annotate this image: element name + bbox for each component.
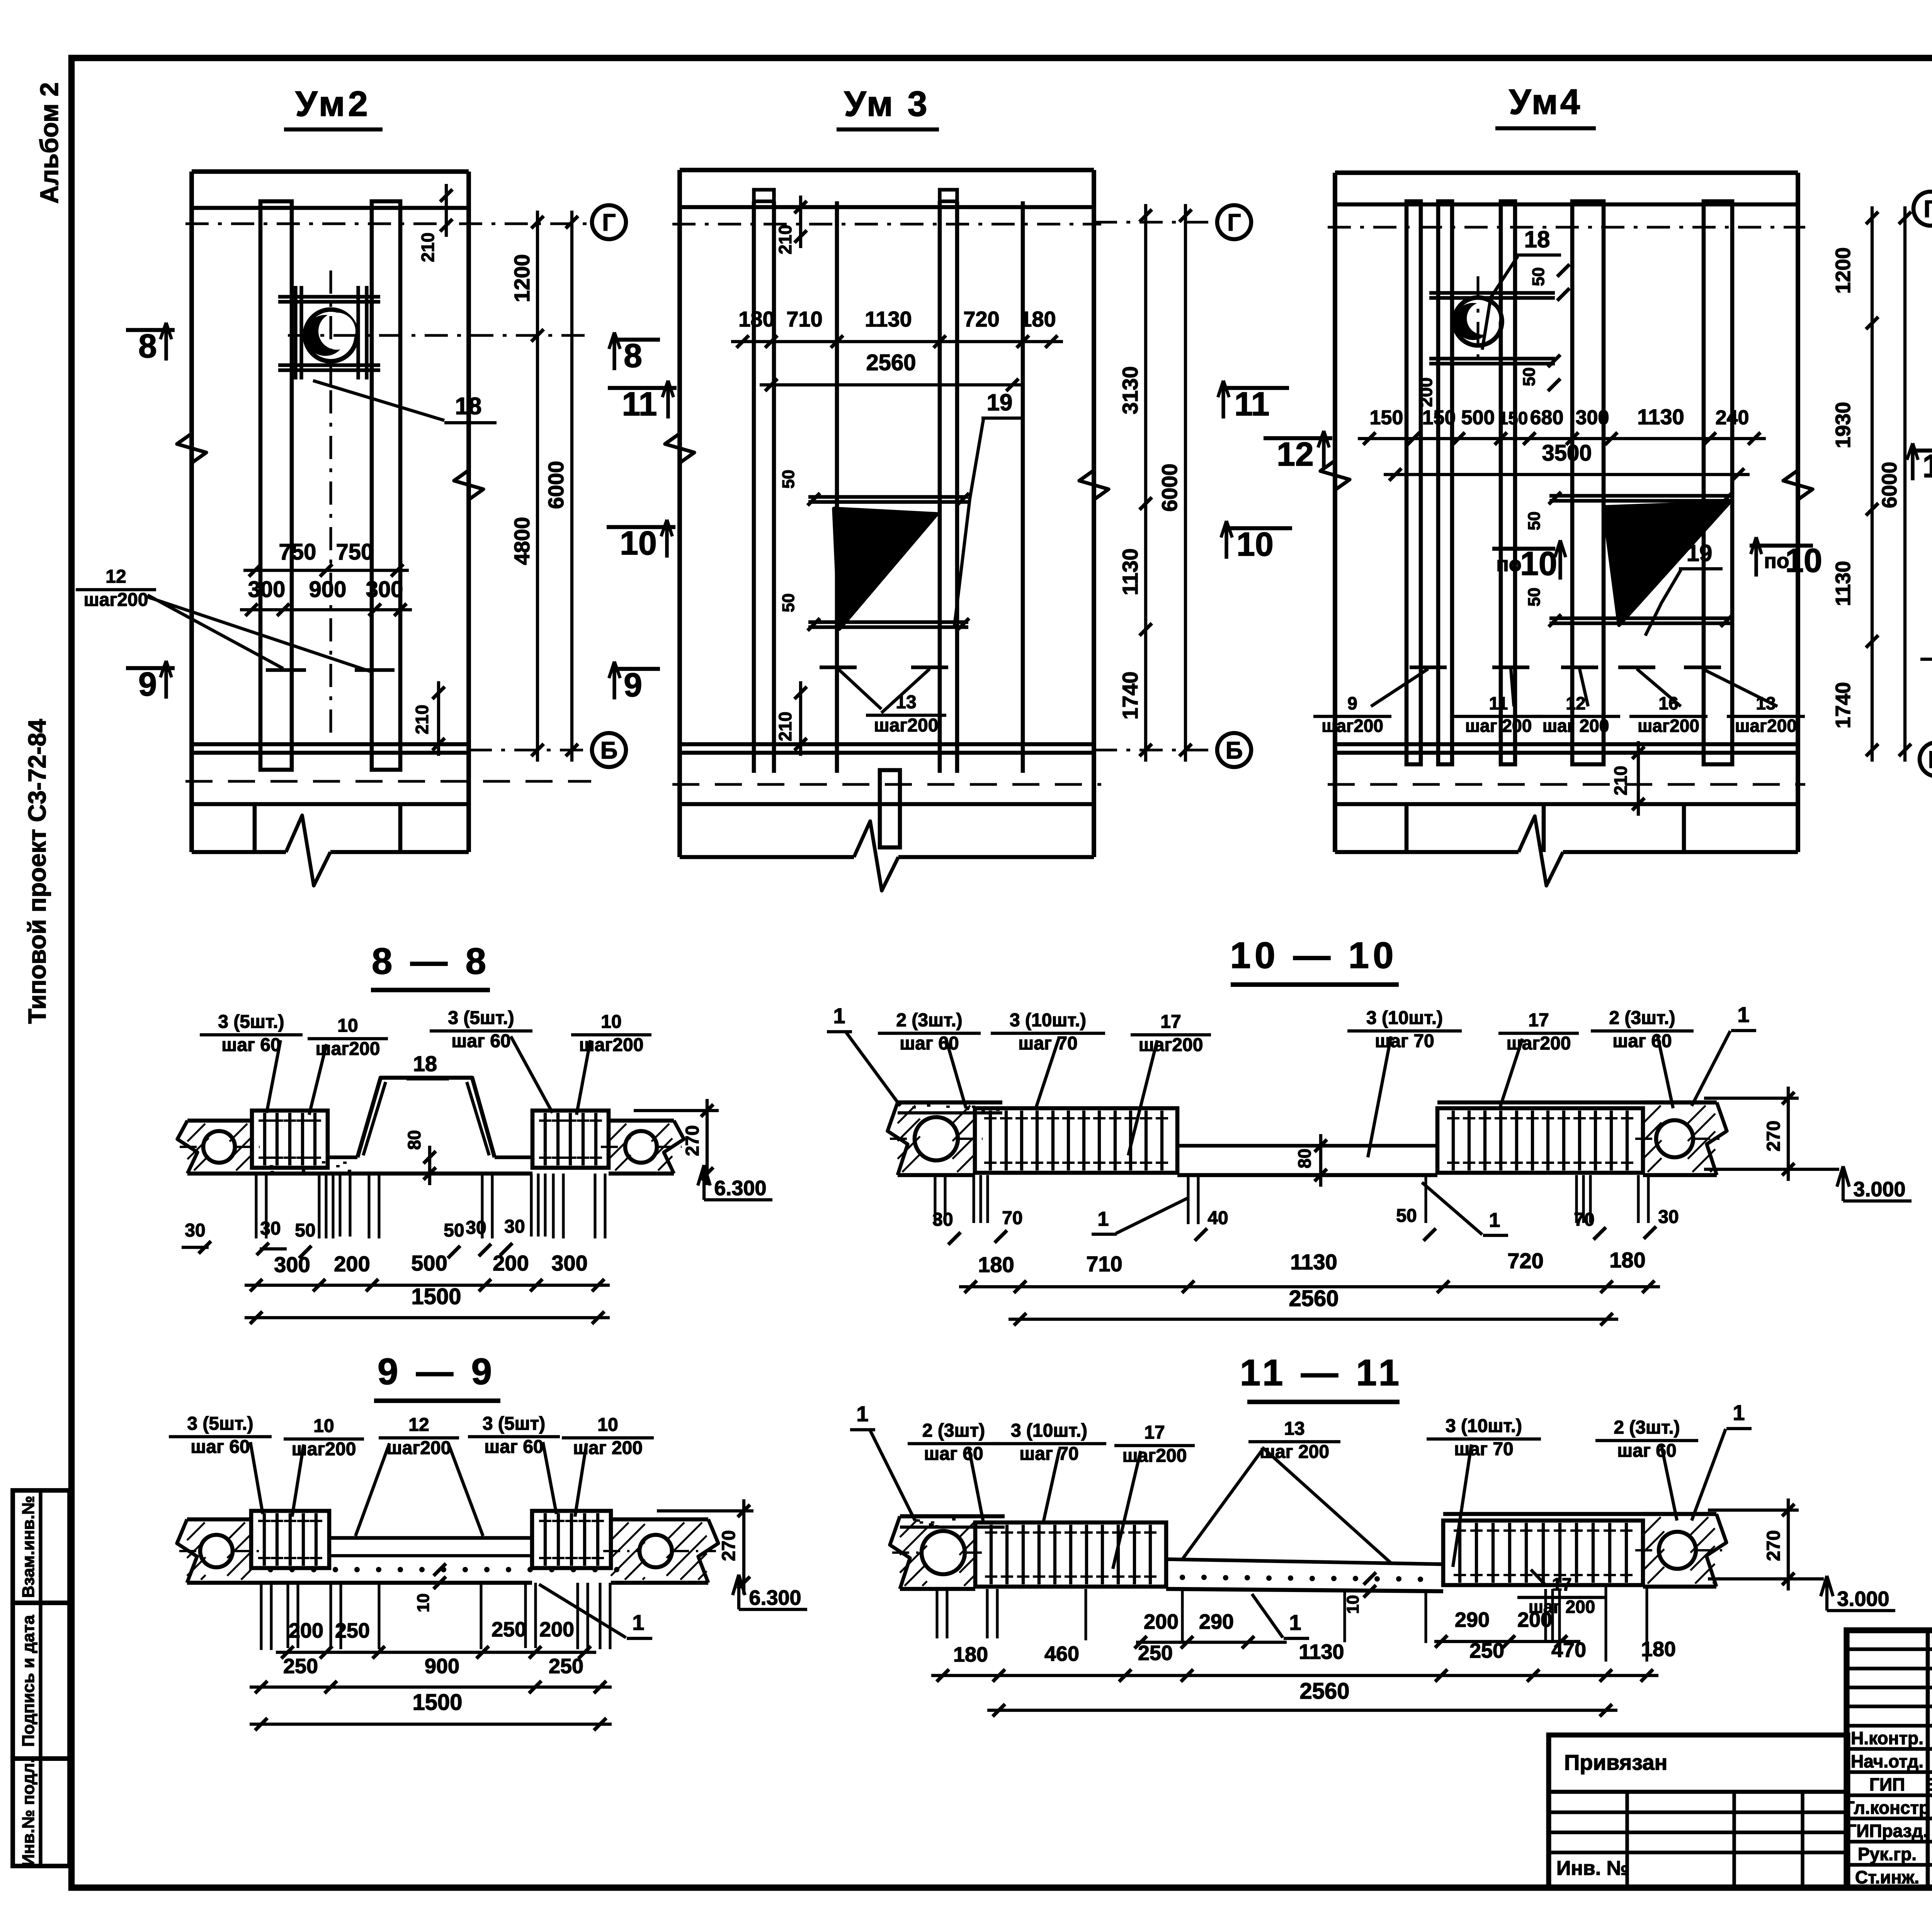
section 9-9 right cage xyxy=(532,1511,611,1568)
svg-text:2 (3шт.): 2 (3шт.) xyxy=(896,1010,962,1031)
svg-text:4800: 4800 xyxy=(510,517,534,565)
svg-text:6000: 6000 xyxy=(544,461,568,509)
svg-text:3 (10шт.): 3 (10шт.) xyxy=(1446,1416,1522,1436)
svg-text:900: 900 xyxy=(309,577,347,602)
svg-text:17: 17 xyxy=(1552,1574,1571,1594)
svg-text:290: 290 xyxy=(1199,1610,1234,1633)
svg-text:шаг200: шаг200 xyxy=(387,1438,451,1458)
svg-text:300: 300 xyxy=(274,1252,310,1277)
svg-text:50: 50 xyxy=(1525,588,1544,607)
svg-text:290: 290 xyxy=(1455,1608,1490,1631)
svg-text:9: 9 xyxy=(1347,693,1357,713)
view Um3 dim 3130 1130 1740 xyxy=(1144,204,1147,762)
view Um4 panel outline xyxy=(1335,170,1798,175)
svg-text:1500: 1500 xyxy=(411,1284,461,1309)
svg-text:50: 50 xyxy=(779,594,798,612)
svg-text:150: 150 xyxy=(1422,407,1456,429)
svg-text:1130: 1130 xyxy=(1299,1640,1344,1664)
svg-text:шаг 200: шаг 200 xyxy=(1260,1442,1329,1462)
svg-text:50: 50 xyxy=(1396,1206,1417,1226)
svg-text:680: 680 xyxy=(1530,407,1564,429)
svg-text:3500: 3500 xyxy=(1542,441,1592,466)
view Pm2 left dim column 1200 1930 1130 1740 xyxy=(1871,206,1874,762)
svg-text:9: 9 xyxy=(138,666,157,703)
svg-text:270: 270 xyxy=(719,1530,739,1561)
svg-text:250: 250 xyxy=(283,1655,318,1678)
svg-text:10: 10 xyxy=(601,1012,621,1032)
view Um3 axis circle B xyxy=(1094,748,1217,751)
svg-text:шаг 200: шаг 200 xyxy=(1543,716,1609,736)
view Um2 bottom wall verticals xyxy=(253,804,257,852)
section 11-11 dim 270 xyxy=(1787,1499,1790,1590)
svg-text:10: 10 xyxy=(337,1015,358,1036)
svg-text:2560: 2560 xyxy=(866,350,916,375)
svg-text:шаг 60: шаг 60 xyxy=(924,1444,983,1464)
svg-text:11: 11 xyxy=(622,386,657,423)
svg-text:Подпись и дата: Подпись и дата xyxy=(19,1615,38,1747)
svg-text:шаг 60: шаг 60 xyxy=(190,1437,250,1457)
svg-text:ГИП: ГИП xyxy=(1869,1774,1905,1795)
section 9-9 dim 270 xyxy=(742,1499,745,1594)
svg-text:180: 180 xyxy=(1641,1638,1676,1661)
svg-text:2 (3шт.): 2 (3шт.) xyxy=(1614,1417,1680,1438)
svg-text:300: 300 xyxy=(366,577,403,602)
svg-text:10: 10 xyxy=(1785,542,1822,579)
svg-text:1: 1 xyxy=(1733,1400,1745,1425)
section 11-11 left mesh strip xyxy=(900,1514,1005,1519)
svg-text:50: 50 xyxy=(1520,367,1539,386)
svg-text:1130: 1130 xyxy=(1290,1250,1337,1274)
svg-text:2560: 2560 xyxy=(1299,1679,1349,1704)
section 10-10 level 3.000 xyxy=(1842,1166,1845,1201)
section 10-10 middle thin slab xyxy=(1177,1144,1437,1147)
view Um3 bottom slab lines xyxy=(680,742,1094,747)
view Um2 axis circle B xyxy=(469,748,592,751)
view Um2 opening circle 18 xyxy=(305,310,357,361)
section marker 10 right of Um3 xyxy=(1223,526,1292,531)
section 11-11 right cage xyxy=(1443,1521,1643,1585)
view Um2 dim line 6000 xyxy=(570,211,573,762)
svg-text:18: 18 xyxy=(413,1051,437,1076)
svg-text:1: 1 xyxy=(1098,1208,1109,1230)
view Um3 opening rebar bottom xyxy=(808,620,968,624)
svg-text:1740: 1740 xyxy=(1832,682,1855,728)
view Um3 opening black triangle xyxy=(834,509,937,629)
svg-text:шаг 60: шаг 60 xyxy=(1612,1031,1672,1051)
svg-text:19: 19 xyxy=(987,390,1013,415)
title block left table verticals xyxy=(1926,1630,1930,1888)
section 8-8 trapezoid channel xyxy=(357,1078,495,1157)
section 11-11 right hollow end xyxy=(1643,1512,1716,1516)
title block empty rows xyxy=(1847,1647,1932,1651)
section 10-10 right cage xyxy=(1437,1108,1643,1173)
svg-text:80: 80 xyxy=(1294,1148,1315,1168)
svg-text:70: 70 xyxy=(1002,1208,1022,1228)
svg-text:1200: 1200 xyxy=(1832,247,1855,294)
svg-text:30: 30 xyxy=(504,1216,525,1237)
section 8-8 slab left hollow end xyxy=(187,1119,252,1123)
section 9-9 middle thin slab xyxy=(329,1536,532,1539)
svg-text:6.300: 6.300 xyxy=(714,1177,766,1200)
view Um2 bottom break xyxy=(192,850,286,854)
svg-text:210: 210 xyxy=(775,712,795,742)
svg-text:1: 1 xyxy=(833,1004,845,1028)
svg-text:180: 180 xyxy=(1020,307,1056,331)
view Um4 strip 3 xyxy=(1501,201,1515,764)
view Pm2 axis circle G left xyxy=(1913,192,1932,226)
view Um3 wall verticals xyxy=(752,201,756,773)
svg-text:8: 8 xyxy=(624,337,642,374)
section 10-10 right hollow end xyxy=(1643,1101,1717,1105)
svg-text:Виноградов: Виноградов xyxy=(1925,1774,1932,1795)
svg-text:Г: Г xyxy=(1227,209,1241,236)
view Um4 opening rebar bottom xyxy=(1549,616,1732,620)
view Um4 strip 4 xyxy=(1572,201,1604,764)
view Um2 label 18 xyxy=(313,381,444,420)
view Um4 strip 5 xyxy=(1704,201,1732,764)
svg-text:шаг200: шаг200 xyxy=(1321,716,1383,736)
svg-text:300: 300 xyxy=(1576,407,1609,429)
view Um4 bottom verticals xyxy=(1405,804,1409,852)
svg-text:200: 200 xyxy=(1517,1608,1552,1631)
sidebar box Инв.№ подл. xyxy=(13,1759,70,1866)
svg-text:30: 30 xyxy=(1658,1207,1679,1227)
svg-text:2 (3шт.): 2 (3шт.) xyxy=(1609,1008,1675,1028)
section marker 8 right of Um2 xyxy=(611,338,660,342)
svg-text:200: 200 xyxy=(493,1251,529,1275)
view Um4 bottom slab lines xyxy=(1335,742,1798,747)
section 9-9 slab left hollow end xyxy=(187,1517,251,1522)
section 9-9 left cage xyxy=(251,1511,329,1568)
svg-text:Инв. №: Инв. № xyxy=(1556,1857,1629,1880)
svg-text:шаг 200: шаг 200 xyxy=(1465,716,1532,736)
title block outline xyxy=(1847,1630,1932,1888)
svg-text:10: 10 xyxy=(313,1416,334,1436)
section 8-8 right cage xyxy=(532,1111,609,1168)
svg-text:шаг200: шаг200 xyxy=(1122,1446,1187,1466)
svg-text:460: 460 xyxy=(1044,1642,1079,1665)
section marker po10 left xyxy=(1492,547,1555,551)
svg-text:210: 210 xyxy=(418,233,438,262)
svg-text:50: 50 xyxy=(779,470,798,489)
svg-text:12: 12 xyxy=(1922,448,1932,484)
svg-text:3 (10шт.): 3 (10шт.) xyxy=(1011,1420,1087,1441)
svg-text:шаг200: шаг200 xyxy=(1735,716,1797,736)
svg-text:3 (5шт): 3 (5шт) xyxy=(483,1414,545,1434)
view Um2 rebar over circle xyxy=(278,295,380,298)
svg-text:18: 18 xyxy=(1524,226,1550,252)
svg-text:50: 50 xyxy=(444,1220,464,1241)
section 11-11 left hollow end xyxy=(900,1514,975,1519)
svg-text:шаг 70: шаг 70 xyxy=(1018,1033,1077,1054)
view Um4 top slab line xyxy=(1335,202,1798,207)
view Um2 bottom slab lines xyxy=(192,742,469,747)
svg-text:13: 13 xyxy=(1284,1419,1304,1439)
svg-text:3 (5шт.): 3 (5шт.) xyxy=(218,1012,284,1032)
svg-text:750: 750 xyxy=(279,539,316,565)
svg-text:40: 40 xyxy=(1207,1208,1228,1228)
section marker 8 left of Um2 xyxy=(126,328,175,332)
svg-text:250: 250 xyxy=(1138,1641,1173,1665)
svg-text:150: 150 xyxy=(1370,407,1403,429)
svg-text:3 (10шт.): 3 (10шт.) xyxy=(1366,1008,1443,1028)
view Um3 bottom stub xyxy=(880,770,900,847)
svg-text:8 — 8: 8 — 8 xyxy=(372,941,490,982)
svg-text:Б: Б xyxy=(1226,737,1243,764)
section 10-10 left hollow end xyxy=(898,1101,975,1105)
section marker 11 right of Um2 xyxy=(608,386,677,390)
svg-text:3 (5шт.): 3 (5шт.) xyxy=(448,1008,514,1028)
svg-text:Г: Г xyxy=(602,209,616,236)
svg-text:1200: 1200 xyxy=(510,254,534,303)
svg-text:Нач.отд.: Нач.отд. xyxy=(1851,1751,1923,1771)
view Um2 axis G line xyxy=(185,222,591,225)
svg-text:ГИПразд.: ГИПразд. xyxy=(1846,1821,1928,1841)
svg-text:200: 200 xyxy=(289,1619,323,1642)
svg-text:180: 180 xyxy=(1609,1248,1645,1272)
svg-text:10: 10 xyxy=(1344,1595,1362,1614)
svg-text:шаг 70: шаг 70 xyxy=(1375,1031,1434,1051)
svg-text:шаг200: шаг200 xyxy=(874,715,939,736)
section 10-10 left mesh strip xyxy=(898,1101,1002,1105)
section 8-8 thin slab right xyxy=(495,1155,532,1159)
svg-text:1: 1 xyxy=(1289,1610,1301,1635)
svg-text:1500: 1500 xyxy=(412,1690,462,1715)
svg-text:250: 250 xyxy=(492,1618,526,1641)
view Um4 rebar over circle xyxy=(1429,291,1555,294)
svg-text:210: 210 xyxy=(412,705,432,735)
svg-text:3 (10шт.): 3 (10шт.) xyxy=(1010,1010,1086,1031)
svg-text:Инв.№ подл.: Инв.№ подл. xyxy=(19,1758,38,1866)
svg-text:150: 150 xyxy=(1498,408,1528,428)
svg-text:250: 250 xyxy=(335,1619,370,1642)
svg-text:3130: 3130 xyxy=(1118,366,1142,415)
view Um3 opening rebar top xyxy=(808,495,968,498)
view Um4 bottom hooks xyxy=(1410,665,1447,669)
svg-text:шаг 60: шаг 60 xyxy=(484,1437,543,1457)
svg-text:750: 750 xyxy=(336,539,374,565)
svg-text:12: 12 xyxy=(1277,436,1314,473)
svg-text:30: 30 xyxy=(466,1218,486,1238)
svg-text:Ум4: Ум4 xyxy=(1509,82,1582,122)
svg-text:200: 200 xyxy=(539,1618,574,1641)
section 9-9 slab right hollow end xyxy=(611,1517,708,1522)
svg-text:12: 12 xyxy=(105,566,126,587)
section marker po10 right xyxy=(1750,544,1813,548)
view Um4 strip 1 xyxy=(1406,201,1421,764)
svg-text:3 (5шт.): 3 (5шт.) xyxy=(187,1414,253,1434)
svg-text:19: 19 xyxy=(1687,540,1713,566)
sidebar box Подпись и дата xyxy=(13,1603,70,1759)
svg-text:10: 10 xyxy=(414,1594,433,1613)
svg-text:Типовой проект С3-72-84: Типовой проект С3-72-84 xyxy=(23,719,51,1024)
svg-text:Ум2: Ум2 xyxy=(295,84,371,124)
svg-text:70: 70 xyxy=(1574,1209,1594,1230)
svg-text:3.000: 3.000 xyxy=(1853,1178,1905,1201)
svg-text:Ум 3: Ум 3 xyxy=(844,84,929,124)
view Um3 axis line top xyxy=(672,223,1101,225)
svg-text:шаг200: шаг200 xyxy=(1139,1035,1203,1055)
view Um4 axis line top xyxy=(1328,226,1805,228)
section 8-8 level 6.300 xyxy=(702,1165,706,1200)
svg-text:270: 270 xyxy=(682,1125,703,1156)
section marker 9 left of Um2 xyxy=(126,666,175,670)
svg-text:470: 470 xyxy=(1551,1638,1586,1662)
svg-text:шаг200: шаг200 xyxy=(84,590,148,610)
view Um4 opening circle xyxy=(1454,298,1502,345)
view Um3 dim 6000 xyxy=(1184,204,1187,762)
svg-text:710: 710 xyxy=(786,307,822,331)
view Pm2 left dim 6000 xyxy=(1903,206,1906,762)
svg-text:900: 900 xyxy=(425,1655,459,1678)
section marker 9 right of Um2 xyxy=(611,667,660,671)
svg-text:11: 11 xyxy=(1489,693,1508,713)
svg-text:240: 240 xyxy=(1716,407,1749,429)
privyazan table xyxy=(1549,1810,1848,1814)
svg-text:Привязан: Привязан xyxy=(1564,1750,1667,1774)
section marker 11 right of Um3 xyxy=(1220,386,1289,390)
svg-text:шаг 70: шаг 70 xyxy=(1019,1444,1078,1464)
svg-text:2 (3шт): 2 (3шт) xyxy=(922,1420,985,1441)
svg-text:шаг200: шаг200 xyxy=(1507,1033,1571,1054)
privyazan box xyxy=(1549,1735,1848,1888)
svg-text:30: 30 xyxy=(260,1218,281,1239)
section 8-8 thin slab left xyxy=(328,1155,357,1159)
section 11-11 middle thin slab xyxy=(1166,1559,1443,1564)
svg-text:Б: Б xyxy=(1928,747,1932,773)
svg-text:1: 1 xyxy=(1737,1002,1749,1027)
svg-text:180: 180 xyxy=(738,307,774,331)
svg-text:250: 250 xyxy=(549,1655,583,1678)
svg-text:2560: 2560 xyxy=(1289,1286,1338,1311)
section marker 12 right of Um3 xyxy=(1264,436,1332,441)
svg-text:Ст.инж.: Ст.инж. xyxy=(1855,1867,1919,1887)
svg-text:10: 10 xyxy=(1520,545,1557,582)
view Um3 panel outline xyxy=(680,168,1094,172)
svg-text:шаг 60: шаг 60 xyxy=(221,1035,281,1055)
svg-text:210: 210 xyxy=(775,225,795,255)
svg-text:Г: Г xyxy=(1923,196,1932,223)
svg-text:200: 200 xyxy=(1416,378,1436,407)
svg-text:710: 710 xyxy=(1086,1252,1122,1276)
svg-text:50: 50 xyxy=(1529,267,1548,286)
svg-text:шаг 60: шаг 60 xyxy=(1617,1441,1676,1461)
svg-text:9: 9 xyxy=(624,667,642,704)
svg-text:200: 200 xyxy=(1144,1610,1179,1633)
section 8-8 left cage xyxy=(252,1111,328,1168)
svg-text:1: 1 xyxy=(856,1402,868,1426)
svg-text:30: 30 xyxy=(185,1220,205,1241)
svg-text:50: 50 xyxy=(1525,512,1544,531)
view Um2 dim line 1200 4800 xyxy=(536,211,539,762)
svg-text:1130: 1130 xyxy=(1637,405,1684,429)
svg-text:11: 11 xyxy=(1235,386,1270,423)
svg-text:300: 300 xyxy=(248,577,286,602)
svg-text:1130: 1130 xyxy=(1832,561,1855,606)
svg-text:1740: 1740 xyxy=(1118,672,1142,720)
svg-text:Альбом 2: Альбом 2 xyxy=(35,82,63,204)
svg-text:Гл.констр: Гл.констр xyxy=(1845,1798,1930,1818)
view Um2 panel outline xyxy=(192,169,469,174)
svg-text:12: 12 xyxy=(408,1415,429,1435)
svg-text:Б: Б xyxy=(600,737,618,764)
svg-text:8: 8 xyxy=(138,328,157,365)
view Um3 strip caps top xyxy=(754,190,774,201)
view Um3 bottom break xyxy=(680,855,854,859)
svg-text:500: 500 xyxy=(1461,407,1495,429)
view Um4 strip 2 xyxy=(1438,201,1452,764)
svg-text:50: 50 xyxy=(295,1220,315,1241)
view Um4 opening black triangle xyxy=(1604,502,1730,625)
svg-text:6.300: 6.300 xyxy=(749,1586,801,1609)
section marker 10 right of Um2 xyxy=(607,525,675,529)
svg-text:11 — 11: 11 — 11 xyxy=(1240,1352,1403,1393)
view Um2 strip hooks xyxy=(266,668,306,672)
view Um4 bottom break xyxy=(1335,850,1519,854)
svg-text:1930: 1930 xyxy=(1832,402,1855,448)
svg-text:17: 17 xyxy=(1160,1012,1181,1032)
svg-text:30: 30 xyxy=(932,1209,953,1230)
svg-text:по: по xyxy=(1496,553,1522,576)
section 10-10 dim 270 xyxy=(1787,1087,1790,1181)
svg-text:180: 180 xyxy=(978,1252,1014,1277)
view Um3 axis circle G xyxy=(1094,221,1217,223)
svg-text:80: 80 xyxy=(404,1130,424,1150)
svg-text:3.000: 3.000 xyxy=(1837,1587,1889,1611)
svg-text:6000: 6000 xyxy=(1878,462,1901,508)
sidebar box Взам.инв.№ xyxy=(13,1490,70,1603)
section 8-8 bottom legs xyxy=(255,1174,257,1238)
section marker 12 left of Pm2 xyxy=(1910,449,1932,453)
view Um2 axis circle G xyxy=(592,205,626,239)
section 11-11 level 3.000 xyxy=(1825,1576,1828,1611)
svg-text:10: 10 xyxy=(1236,526,1274,563)
svg-text:270: 270 xyxy=(1764,1530,1784,1561)
section 11-11 bottom legs xyxy=(935,1589,938,1638)
view Um3 top slab line xyxy=(680,205,1094,209)
svg-text:720: 720 xyxy=(1507,1249,1543,1273)
view Pm2 axis circle B left bottom xyxy=(1920,742,1932,776)
svg-text:Взам.инв.№: Взам.инв.№ xyxy=(19,1496,38,1598)
view Um3 bottom hooks xyxy=(820,665,857,669)
svg-text:1130: 1130 xyxy=(865,307,912,331)
section 9-9 level 6.300 xyxy=(737,1575,740,1609)
section 9-9 bottom legs xyxy=(260,1583,262,1650)
section 10-10 left cage xyxy=(975,1108,1177,1173)
svg-text:шаг 60: шаг 60 xyxy=(451,1031,510,1051)
svg-text:1130: 1130 xyxy=(1118,548,1142,595)
svg-text:200: 200 xyxy=(334,1252,370,1276)
svg-text:Н.контр.: Н.контр. xyxy=(1851,1728,1923,1748)
svg-text:720: 720 xyxy=(963,307,999,331)
svg-text:6000: 6000 xyxy=(1157,464,1182,512)
view Um2 top slab line xyxy=(192,206,469,210)
svg-text:1: 1 xyxy=(1489,1209,1500,1232)
view Um2 strip right xyxy=(372,201,400,770)
svg-text:270: 270 xyxy=(1764,1121,1784,1152)
svg-text:9 — 9: 9 — 9 xyxy=(378,1351,496,1392)
svg-text:10: 10 xyxy=(620,525,657,562)
svg-text:180: 180 xyxy=(953,1643,988,1666)
section 10-10 bottom legs xyxy=(934,1175,936,1223)
svg-text:12: 12 xyxy=(1566,693,1585,713)
svg-text:шаг 70: шаг 70 xyxy=(1454,1439,1513,1459)
svg-text:1: 1 xyxy=(632,1610,644,1635)
svg-text:17: 17 xyxy=(1144,1422,1165,1443)
svg-text:шаг200: шаг200 xyxy=(1638,716,1699,736)
svg-text:17: 17 xyxy=(1528,1010,1549,1031)
section 9-9 mesh dots xyxy=(268,1567,273,1572)
